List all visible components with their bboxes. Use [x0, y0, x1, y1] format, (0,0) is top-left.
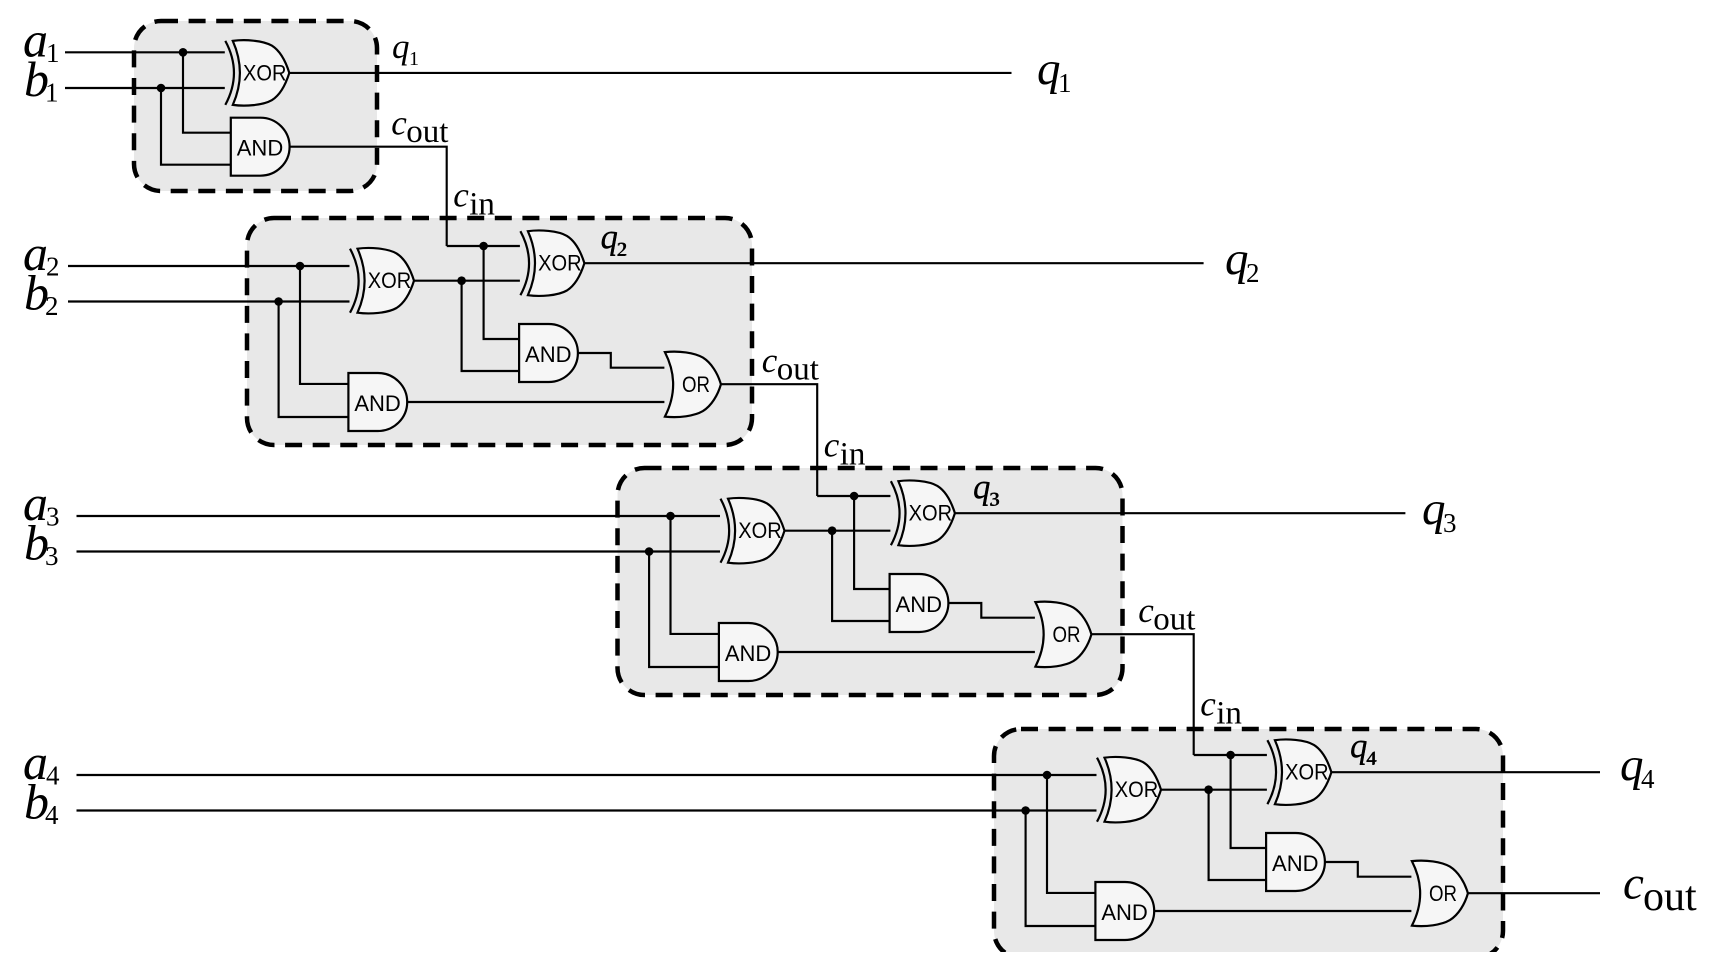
svg-text:q: q [1225, 233, 1249, 285]
svg-text:q: q [392, 27, 410, 66]
svg-text:out: out [777, 352, 819, 388]
svg-text:c: c [824, 426, 840, 465]
svg-text:3: 3 [45, 541, 59, 571]
svg-text:1: 1 [409, 48, 419, 70]
svg-text:c: c [453, 176, 469, 215]
svg-text:4: 4 [45, 800, 59, 830]
svg-text:4: 4 [1641, 764, 1655, 794]
svg-text:3: 3 [1443, 508, 1457, 538]
svg-text:1: 1 [45, 78, 59, 108]
svg-text:q: q [1037, 43, 1061, 95]
svg-text:c: c [762, 341, 778, 380]
svg-text:c: c [1623, 858, 1644, 910]
svg-text:in: in [840, 437, 866, 473]
svg-text:q: q [1620, 739, 1644, 791]
svg-text:in: in [469, 187, 495, 223]
svg-text:2: 2 [617, 239, 627, 261]
svg-text:2: 2 [1246, 258, 1260, 288]
svg-text:4: 4 [1366, 748, 1376, 770]
svg-text:c: c [1200, 685, 1216, 724]
svg-text:q: q [601, 217, 619, 256]
svg-text:out: out [406, 114, 448, 150]
svg-text:in: in [1216, 696, 1242, 732]
svg-text:q: q [1422, 483, 1446, 535]
svg-text:1: 1 [1058, 68, 1072, 98]
svg-text:c: c [391, 104, 407, 143]
svg-text:c: c [1138, 591, 1154, 630]
svg-text:2: 2 [45, 291, 59, 321]
svg-text:q: q [1350, 726, 1368, 765]
svg-text:out: out [1153, 602, 1195, 638]
svg-text:out: out [1643, 874, 1697, 920]
svg-text:3: 3 [989, 489, 999, 511]
svg-text:q: q [973, 467, 991, 506]
